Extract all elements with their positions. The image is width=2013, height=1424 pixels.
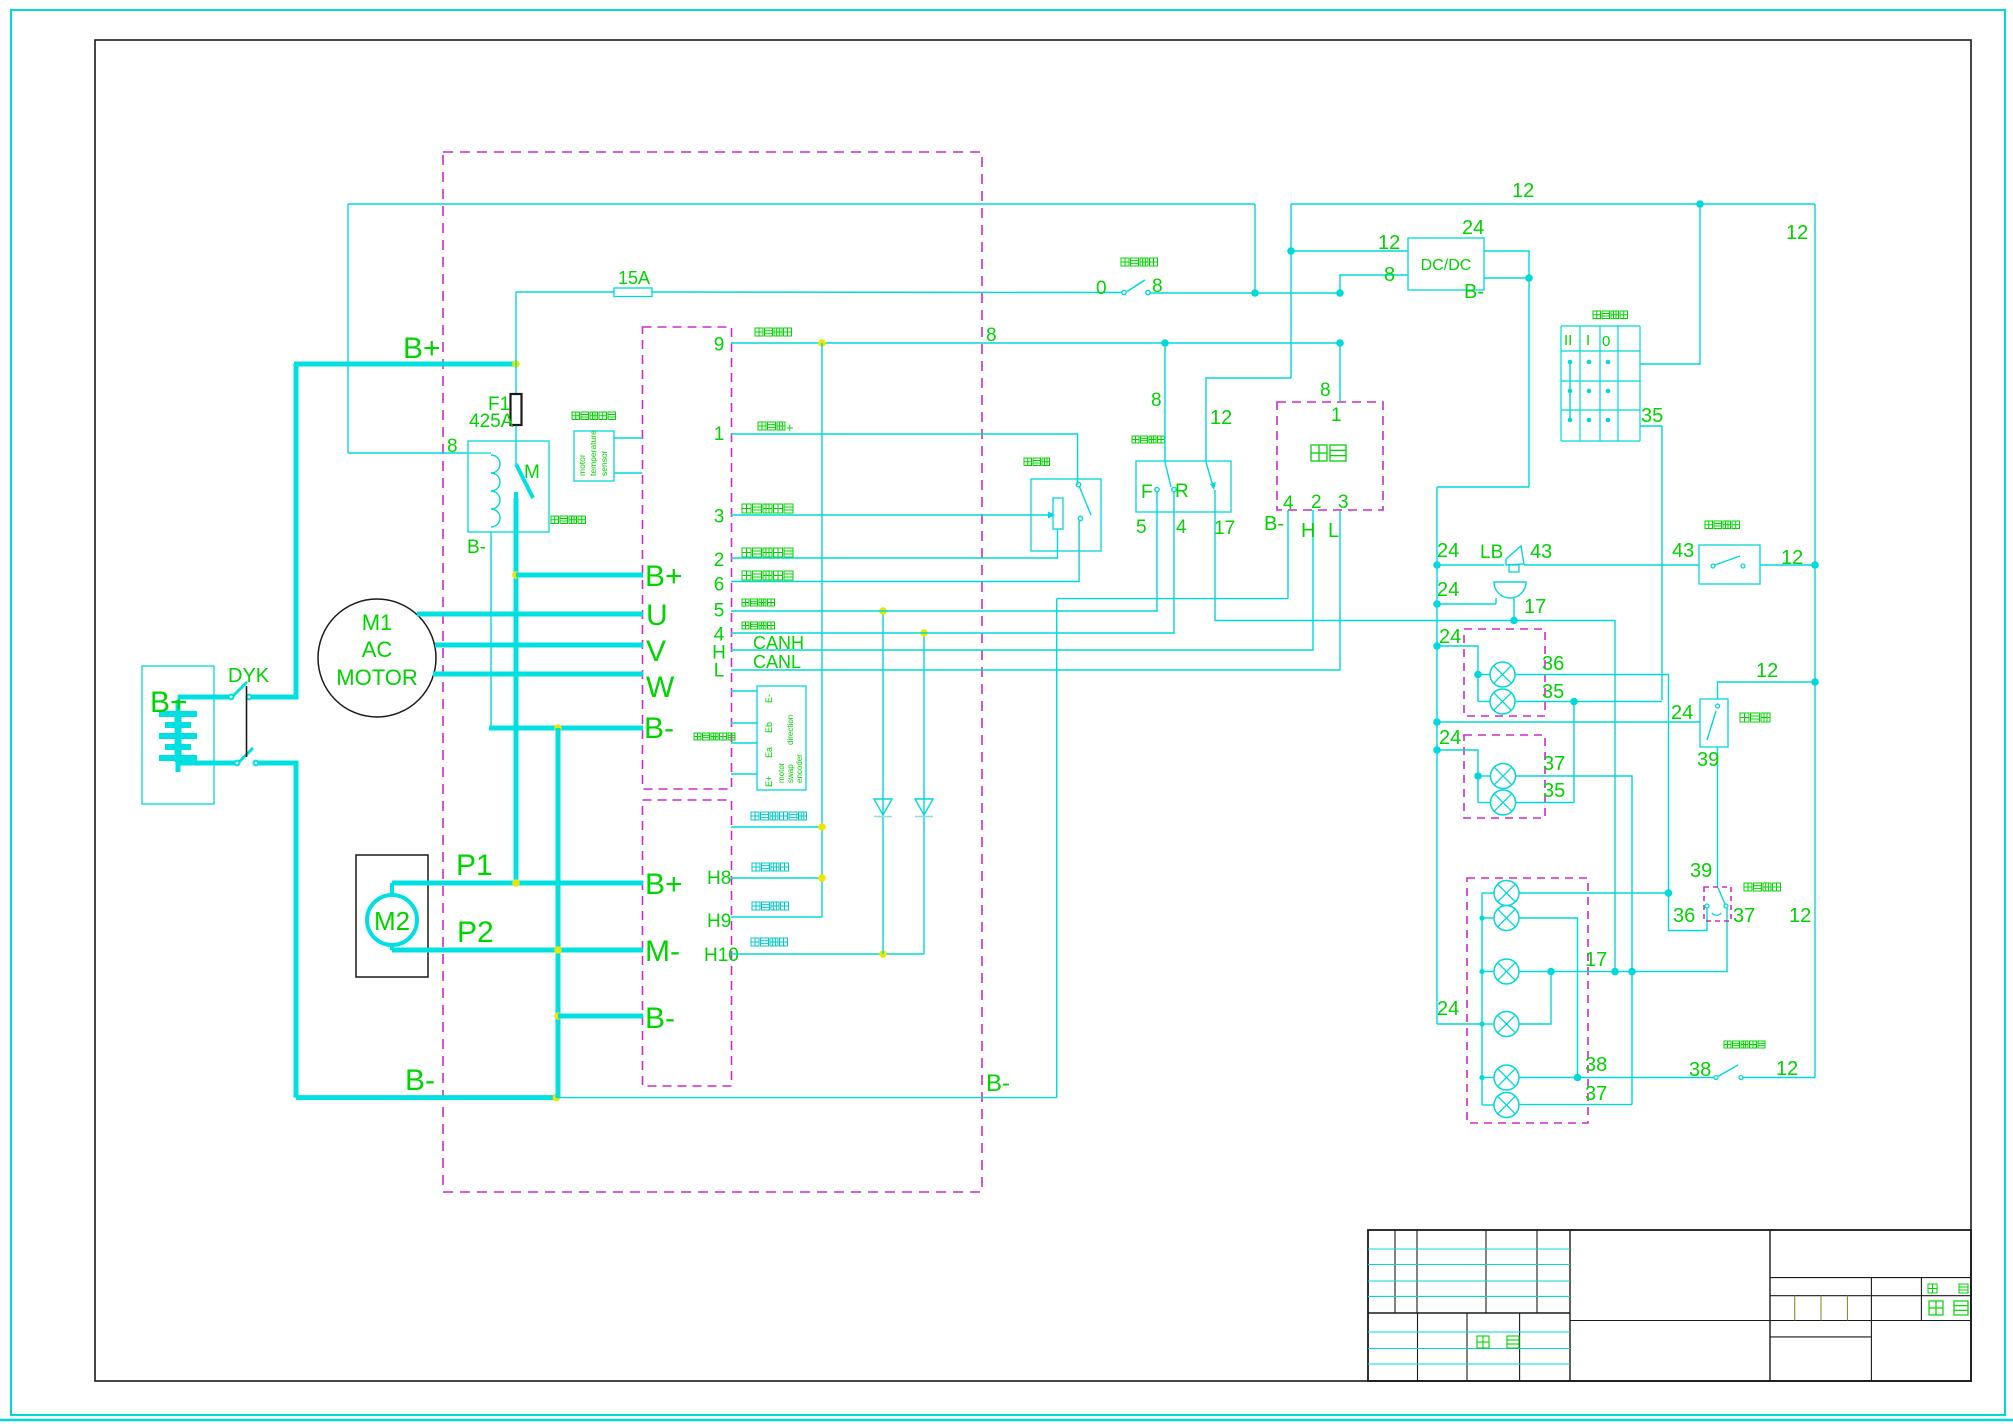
label 方向开关 (1132, 436, 1165, 443)
node B+ branch (512, 571, 520, 579)
label DYK (228, 665, 270, 687)
wire 24 bus head (1437, 486, 1529, 488)
svg-text:35: 35 (1641, 405, 1663, 427)
svg-text:8: 8 (986, 325, 997, 346)
label V (646, 635, 666, 668)
node rail/headlight (1696, 200, 1704, 208)
wire LB to horn switch (1524, 564, 1699, 566)
label CANH (753, 633, 804, 653)
svg-text:37: 37 (1733, 905, 1755, 927)
label 8 coil (447, 436, 458, 457)
node group2 tee (1474, 772, 1482, 780)
svg-text:W: W (646, 671, 675, 704)
wire 35 to lamp4 (1516, 802, 1575, 804)
node 36/lamp5 (1665, 889, 1673, 897)
wire H10 (731, 953, 924, 955)
label 39 turn (1690, 860, 1712, 882)
wire 24 to flasher (1437, 721, 1700, 723)
label 36 group1 (1542, 653, 1564, 675)
turn switch box (magenta dashed) (1704, 887, 1731, 921)
battery box (142, 666, 214, 804)
wire H8 (731, 877, 822, 879)
nodes group3 bus (1479, 915, 1484, 1080)
pump motor M2 box (356, 855, 428, 977)
label 425A (469, 411, 514, 432)
wire H9 (731, 916, 822, 918)
svg-text:LB: LB (1480, 542, 1503, 563)
svg-text:2: 2 (1311, 492, 1322, 513)
wire pin9/8-line (731, 342, 1340, 344)
svg-text:12: 12 (1776, 1058, 1798, 1080)
svg-text:H: H (1301, 520, 1315, 542)
wire lamp2 stub (1478, 701, 1490, 703)
wire battery- to DYK lower (178, 761, 235, 766)
turn switch blade (1718, 888, 1725, 904)
label 后退开关 pin4 (742, 622, 775, 629)
dir switch blade 1 (1165, 462, 1171, 487)
wire key to risers (1150, 292, 1340, 294)
label H8 (707, 868, 731, 889)
wire pin2 accel- (731, 529, 1058, 558)
flasher box (1700, 699, 1728, 747)
wire V phase (435, 643, 643, 648)
label H10 (704, 945, 739, 966)
svg-text:12: 12 (1512, 180, 1534, 202)
label L instrument (1328, 520, 1339, 542)
node H10 diode (879, 950, 887, 958)
label 8 dir (1151, 390, 1162, 411)
wire group3 left bus (1481, 893, 1483, 1105)
contactor box (468, 441, 549, 532)
wire DYK lower to B- riser (258, 763, 296, 1098)
svg-text:B+: B+ (645, 868, 683, 901)
node B- mid branch (554, 724, 562, 732)
wire lamp6 drop (1519, 918, 1578, 1078)
wire meter B- drop (1287, 510, 1289, 599)
border bottom cyan strip (0, 1419, 2013, 1422)
svg-text:L: L (714, 661, 725, 682)
svg-text:Ea: Ea (764, 747, 774, 758)
label 8 key (1152, 276, 1163, 297)
wire 36 to turn switch (1669, 893, 1708, 931)
label 24 group3 (1437, 998, 1459, 1020)
svg-text:8: 8 (447, 436, 458, 457)
label M contactor (524, 462, 540, 483)
wire pin1 accel+ (731, 434, 1078, 485)
svg-text:H8: H8 (707, 868, 731, 889)
label 37 group3 (1585, 1083, 1607, 1105)
label 12 rail right (1786, 222, 1808, 244)
label 12 horn (1781, 547, 1803, 569)
wire 8 into dcdc (1340, 275, 1408, 293)
lamp L3 (1491, 764, 1516, 789)
wire U phase (417, 612, 643, 617)
svg-text:M1: M1 (362, 610, 393, 635)
label U (646, 599, 668, 632)
wire turn37 drop (1726, 908, 1728, 972)
svg-text:3: 3 (714, 507, 725, 528)
svg-text:38: 38 (1689, 1059, 1711, 1081)
wire diode D1 riser (882, 611, 884, 954)
wire horn switch to 12 (1760, 564, 1815, 566)
label 4 dir (1176, 517, 1187, 538)
svg-text:H10: H10 (704, 945, 739, 966)
label 12 turn (1789, 905, 1811, 927)
node P1 riser (512, 879, 520, 887)
svg-text:P2: P2 (457, 916, 494, 949)
label 24 group2 (1439, 727, 1461, 749)
node B- to J2 (554, 1012, 562, 1020)
node H8 riser (818, 874, 826, 882)
label 前进开关 pin5 (742, 599, 775, 606)
svg-text:B+: B+ (645, 560, 683, 593)
svg-text:CANL: CANL (753, 652, 801, 672)
label 0 key (1096, 278, 1107, 299)
svg-text:24: 24 (1437, 579, 1459, 601)
svg-text:17: 17 (1214, 518, 1235, 539)
lamp L4 (1491, 790, 1516, 815)
label 原按钥匙开关 (751, 812, 807, 820)
lamp group1 box (magenta dashed) (1464, 629, 1545, 716)
node key-return (818, 823, 826, 831)
svg-text:12: 12 (1786, 222, 1808, 244)
svg-text:5: 5 (1136, 517, 1147, 538)
node pin5/diode D1 (879, 607, 887, 615)
wire B+ to controller (516, 573, 643, 578)
svg-text:8: 8 (1384, 264, 1395, 286)
wire diode D2 riser (923, 633, 925, 954)
label P2 (457, 916, 494, 949)
wire B- thin rail (556, 1097, 1056, 1099)
wire 24 feed group2 (1437, 750, 1478, 803)
label 37 group2 (1543, 753, 1565, 775)
encoder text (764, 694, 804, 787)
label B- J2 (645, 1002, 675, 1035)
svg-text:12: 12 (1789, 905, 1811, 927)
wire B- bottom rail thick (296, 1095, 556, 1100)
accel switch (1076, 482, 1091, 520)
wire DYK to B+ riser (251, 364, 296, 697)
label 倾斜开关 (752, 902, 789, 910)
svg-text:M: M (524, 462, 540, 483)
wire 12 to flasher (1718, 682, 1816, 699)
wire 12 riser left (1290, 204, 1292, 378)
node 24/group1 (1433, 642, 1441, 650)
wire riser B+ to contactor (515, 364, 517, 464)
label B- right (986, 1070, 1010, 1097)
svg-text:B-: B- (467, 537, 486, 558)
wire contactor to B+/P1 riser (514, 498, 519, 883)
svg-text:H9: H9 (707, 911, 731, 932)
svg-text:38: 38 (1585, 1054, 1607, 1076)
wire M2 stub bottom (390, 944, 394, 950)
wire 24 to horn2 (1437, 598, 1496, 604)
fuse 15A body (614, 288, 652, 297)
node 8-line dcdc (1336, 339, 1344, 347)
svg-text:B+: B+ (150, 686, 188, 719)
label 38 group3 (1585, 1054, 1607, 1076)
wire CANL (731, 510, 1340, 670)
svg-text:0: 0 (1602, 333, 1610, 350)
label 喇叭开关 (1705, 521, 1740, 529)
svg-text:3: 3 (1338, 492, 1349, 513)
wire 17 net (1215, 490, 1615, 972)
svg-text:12: 12 (1781, 547, 1803, 569)
wire 8 to dir switch (1164, 343, 1166, 462)
label B- instrument (1264, 513, 1284, 535)
wire 24 bus vertical (1436, 487, 1438, 1024)
svg-text:+: + (786, 420, 794, 435)
label B- coil (467, 537, 486, 558)
labels instrument pins 4 2 3 (1283, 492, 1349, 514)
svg-text:24: 24 (1437, 998, 1459, 1020)
turn switch contacts (1705, 904, 1728, 915)
wire 12 into dcdc (1291, 250, 1408, 252)
label H instrument (1301, 520, 1315, 542)
svg-text:L: L (1328, 520, 1339, 542)
node 24/group2 (1433, 746, 1441, 754)
label B+ controller (645, 560, 683, 593)
wire W phase (433, 672, 643, 677)
svg-text:I: I (1586, 332, 1590, 349)
switch key 0-8 (1122, 280, 1150, 295)
switch brake (1714, 1065, 1743, 1080)
svg-text:direction: direction (786, 715, 795, 745)
label 5 dir (1136, 517, 1147, 538)
lamp group2 box (magenta dashed) (1464, 735, 1545, 818)
svg-text:1: 1 (714, 424, 725, 445)
wire B- jog horizontal (1057, 598, 1288, 600)
wire dcdc out B- (1484, 277, 1529, 279)
svg-text:F: F (1141, 482, 1153, 503)
svg-text:8: 8 (1320, 380, 1331, 401)
svg-text:B-: B- (986, 1070, 1010, 1097)
fuse F1 body (black) (511, 394, 522, 425)
wire top riser (1254, 204, 1256, 293)
svg-text:B-: B- (1264, 513, 1284, 535)
label DC/DC (1421, 257, 1472, 274)
svg-text:B-: B- (1464, 281, 1484, 303)
label CANL (753, 652, 801, 672)
label 12 brake (1776, 1058, 1798, 1080)
label P1 (456, 849, 493, 882)
wire temp sensor 1 (614, 437, 643, 439)
svg-text:R: R (1175, 481, 1189, 502)
wire 36 from lamp1 (1515, 675, 1669, 894)
wire P1 (392, 881, 643, 886)
node pin4/diode D2 (920, 629, 928, 637)
contactor blade M (thick) (516, 464, 533, 498)
svg-text:12: 12 (1378, 232, 1400, 254)
flasher contact (1707, 704, 1720, 740)
svg-text:6: 6 (714, 575, 725, 596)
label 转向灯时 (751, 938, 788, 946)
label F (1141, 482, 1153, 503)
svg-text:24: 24 (1439, 727, 1461, 749)
DYK linkage (black) (246, 686, 248, 757)
svg-text:B-: B- (644, 712, 674, 745)
label 起升开关 (752, 863, 789, 871)
label 8 dcdc (1384, 264, 1395, 286)
svg-text:AC: AC (362, 637, 393, 662)
svg-text:0: 0 (1096, 278, 1107, 299)
label M1 AC MOTOR (336, 610, 417, 690)
wire horn2 stem (1513, 598, 1515, 621)
label LB (1480, 542, 1503, 563)
wire lamp9 38 line (1519, 1077, 1714, 1079)
wire key-return line (731, 826, 822, 828)
motor M1 circle (318, 599, 436, 717)
diode D2 (915, 799, 933, 817)
wire rail to headlight (1640, 204, 1700, 364)
node key/top riser (1251, 289, 1259, 297)
wire 12 to dir switch (1206, 378, 1291, 462)
node 12/dcdc (1287, 247, 1295, 255)
svg-text:24: 24 (1462, 217, 1484, 239)
wire riser to contactor coil (347, 204, 349, 453)
svg-text:35: 35 (1542, 681, 1564, 703)
wire flasher to turn switch (1717, 747, 1719, 888)
label 8 net right (986, 325, 997, 346)
lamp group3 box (magenta dashed) (1467, 878, 1588, 1123)
direction switch box (1136, 461, 1231, 512)
label B+ battery (150, 686, 188, 719)
label M- J2 (645, 935, 680, 968)
headlight switch grid (1561, 326, 1640, 441)
connector J1 upper pin box (magenta dashed) (643, 327, 732, 789)
wire 15A feed (516, 291, 614, 293)
svg-text:M2: M2 (374, 906, 410, 936)
wire pin6 accel sw (731, 521, 1079, 582)
node horn/12 riser (1811, 561, 1819, 569)
label 电机编码器 (694, 733, 735, 740)
wire 24 to LB (1437, 564, 1504, 566)
label 35 headlight (1641, 405, 1663, 427)
title block olive cells (1795, 1296, 1848, 1321)
wire coil to B- line (490, 532, 492, 728)
label 24 horn2 (1437, 579, 1459, 601)
wire dcdc out 24 (1484, 251, 1529, 487)
label 钥匙开关 pin9 (755, 328, 792, 336)
label 43 LB (1530, 541, 1552, 563)
labels J1 pin numbers (712, 335, 726, 682)
svg-text:B-: B- (405, 1064, 435, 1097)
lamps L5-L10 (1494, 881, 1519, 1118)
wire CANH (731, 510, 1313, 650)
label 钥匙开关 key (1121, 258, 1158, 266)
node 24/flasher (1433, 718, 1441, 726)
wire lamp1 stub (1478, 674, 1490, 676)
label 17 horn (1524, 596, 1546, 618)
node group1 tee (1474, 671, 1482, 679)
temp sensor box (574, 431, 614, 481)
node B+ rail / fuse riser (512, 360, 520, 368)
label B- bottom (405, 1064, 435, 1097)
svg-text:U: U (646, 599, 668, 632)
encoder box (757, 686, 806, 790)
wire B- jog riser (1056, 599, 1058, 1098)
instrument box (magenta dashed) (1277, 402, 1383, 510)
label 24 flasher (1671, 702, 1693, 724)
svg-text:24: 24 (1439, 626, 1461, 648)
svg-text:1: 1 (1331, 405, 1342, 426)
wire B- mid (489, 726, 643, 731)
wire fuse riser (515, 292, 517, 364)
label small right pair (1928, 1284, 1968, 1293)
labels II I 0 (1564, 332, 1610, 350)
contactor moving stub (514, 492, 518, 500)
node dcdc outs (1525, 274, 1533, 282)
label 36 turn (1673, 905, 1695, 927)
wire temp sensor 2 (614, 472, 643, 474)
wire M2 stub top (390, 883, 394, 896)
label H9 (707, 911, 731, 932)
wire B- to J2 (558, 1014, 643, 1019)
label 12 rail (1512, 180, 1534, 202)
svg-text:9: 9 (714, 335, 725, 356)
label B+ rail (403, 332, 441, 365)
label 12 flasher (1756, 660, 1778, 682)
wire battery+ to DYK (178, 695, 229, 700)
wire lamp3 stub (1478, 775, 1491, 777)
wire top rail 8 (left) (348, 203, 1255, 205)
label 仪表 (1311, 445, 1346, 461)
node pin9 riser (818, 339, 826, 347)
label 审定 (1477, 1336, 1519, 1348)
title block cyan rows (1368, 1249, 1570, 1364)
diode D1 (874, 799, 892, 817)
svg-text:37: 37 (1585, 1083, 1607, 1105)
horn 2 dome (1494, 582, 1526, 598)
node 35 tee (1570, 698, 1578, 706)
svg-text:12: 12 (1210, 407, 1232, 429)
svg-text:2: 2 (714, 550, 725, 571)
label 12 dcdc (1378, 232, 1400, 254)
wire 37 from lamp3 (1516, 776, 1633, 1105)
wires group3 stubs (1482, 893, 1494, 1105)
svg-text:39: 39 (1697, 749, 1719, 771)
svg-text:36: 36 (1673, 905, 1695, 927)
svg-text:24: 24 (1671, 702, 1693, 724)
svg-text:motor: motor (577, 454, 587, 476)
wire lamp8 to join (1519, 972, 1551, 1025)
horn switch blade (1711, 556, 1745, 568)
wire 17/37 line (1551, 971, 1728, 973)
label 37 turn (1733, 905, 1755, 927)
temp sensor text (577, 430, 609, 476)
label 转向开关 (1744, 883, 1781, 891)
label 17 dir (1214, 518, 1235, 539)
label 24 group1 (1439, 626, 1461, 648)
wire lamp10 37 line (1519, 1104, 1632, 1106)
svg-text:43: 43 (1530, 541, 1552, 563)
wire 12 top rail (1291, 203, 1815, 205)
wire B+ rail (294, 362, 516, 367)
accelerator box (1031, 479, 1101, 551)
svg-text:425A: 425A (469, 411, 514, 432)
label 35 group1 (1542, 681, 1564, 703)
svg-text:encoder: encoder (795, 754, 804, 783)
wire lamp7 stub right (1519, 971, 1551, 973)
label 1 instrument (1331, 405, 1342, 426)
svg-text:15A: 15A (618, 268, 650, 288)
node 24/horn2 (1433, 600, 1441, 608)
svg-text:M-: M- (645, 935, 680, 968)
wire 8 to instrument (1339, 343, 1341, 402)
dir switch contacts (1155, 487, 1176, 491)
svg-text:12: 12 (1756, 660, 1778, 682)
svg-text:DC/DC: DC/DC (1421, 257, 1472, 274)
